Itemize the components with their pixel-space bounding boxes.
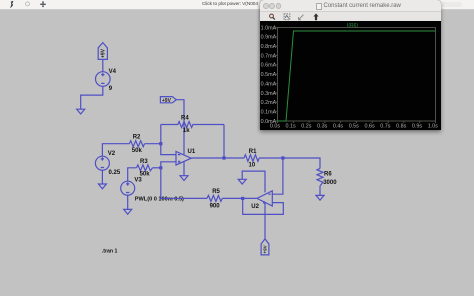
svg-text:+9V: +9V [101, 48, 107, 58]
op-amp U1 [176, 151, 191, 165]
svg-text:0.4s: 0.4s [333, 123, 343, 129]
svg-text:R1: R1 [249, 149, 257, 155]
wire V2 bottom to ground [101, 170, 103, 184]
wire R1 to node D [259, 157, 283, 159]
ground (V3) [124, 209, 132, 214]
svg-text:0.0s: 0.0s [270, 123, 280, 129]
svg-text:900: 900 [210, 203, 221, 209]
wire V2 top to R2 [102, 144, 129, 157]
ground (R6) [316, 195, 324, 200]
svg-text:U1: U1 [188, 149, 196, 155]
junction node B [159, 166, 162, 169]
wire node D to R6 [283, 158, 320, 168]
wire R4 right down to output [223, 125, 225, 159]
svg-text:0.5s: 0.5s [349, 123, 359, 129]
op-amp U2 [257, 191, 272, 206]
resistor R1 [244, 155, 259, 162]
svg-text:V3: V3 [134, 177, 142, 183]
svg-text:1k: 1k [183, 128, 190, 134]
svg-text:R2: R2 [133, 134, 141, 140]
ground (U1) [180, 176, 188, 181]
svg-text:.tran 1: .tran 1 [102, 248, 118, 254]
svg-text:PWL(0 0 100m 0.5): PWL(0 0 100m 0.5) [135, 196, 184, 202]
main LTspice window toolbar [0, 0, 474, 10]
net flag +9V above V4 [98, 43, 107, 60]
voltage source V3 [121, 181, 135, 195]
wire node A to U1 inverting input [161, 144, 176, 155]
svg-text:0.5mA: 0.5mA [261, 72, 277, 78]
svg-text:0.4mA: 0.4mA [261, 81, 277, 87]
wire R4 left to node A [160, 125, 162, 144]
svg-text:0.1s: 0.1s [285, 123, 295, 129]
svg-text:3000: 3000 [323, 180, 337, 186]
ground (V2) [98, 184, 106, 189]
svg-text:0.8s: 0.8s [396, 123, 406, 129]
x ticks [278, 121, 436, 123]
junction node A [159, 142, 162, 145]
svg-text:1.0s: 1.0s [428, 123, 438, 129]
svg-text:+9V: +9V [263, 244, 268, 253]
junction output node [222, 156, 225, 159]
svg-text:50k: 50k [132, 148, 143, 154]
svg-text:+9V: +9V [162, 98, 172, 104]
junction U2 output node [241, 197, 244, 200]
net flag +9V left of R4 [160, 97, 176, 104]
svg-text:0.3mA: 0.3mA [261, 91, 277, 97]
svg-text:V4: V4 [109, 69, 117, 75]
svg-text:0.1mA: 0.1mA [261, 110, 277, 116]
svg-text:U2: U2 [251, 204, 259, 210]
voltage source V2 [95, 156, 109, 170]
svg-text:0.25: 0.25 [109, 170, 121, 176]
svg-text:R5: R5 [212, 189, 220, 195]
svg-text:0.9s: 0.9s [412, 123, 422, 129]
resistor R3 [137, 165, 153, 171]
ground (U2) [238, 179, 246, 184]
wire V3 bottom to ground [127, 195, 129, 209]
resistor R5 [207, 195, 222, 201]
svg-text:0.7s: 0.7s [380, 123, 390, 129]
wire U2 V- to ground [242, 171, 265, 192]
svg-text:1.0mA: 1.0mA [261, 25, 277, 31]
svg-text:R4: R4 [181, 116, 189, 122]
y ticks [274, 28, 277, 122]
trace I(R6) [278, 31, 436, 121]
resistor R4 [161, 122, 224, 128]
wire R5 to U2 output [222, 197, 257, 199]
wire node B to U1 non-inverting input [161, 162, 176, 168]
svg-text:9: 9 [109, 86, 113, 92]
wire U1 V- to ground [183, 162, 185, 176]
svg-text:V2: V2 [108, 151, 116, 157]
svg-text:0.3s: 0.3s [317, 123, 327, 129]
waveform plot window [260, 0, 441, 130]
voltage source V4 [96, 72, 111, 87]
wire U2 V+ to flag [264, 203, 266, 239]
x axis labels [270, 123, 438, 129]
y axis labels [261, 25, 277, 125]
svg-text:0.9mA: 0.9mA [261, 35, 277, 41]
svg-text:0.6mA: 0.6mA [261, 63, 277, 69]
wire R6 to ground [319, 186, 321, 196]
svg-text:R6: R6 [324, 172, 332, 178]
svg-text:0.2mA: 0.2mA [261, 100, 277, 106]
svg-text:50k: 50k [140, 171, 151, 177]
svg-text:I(R6): I(R6) [347, 23, 358, 29]
net flag +9V below U2 [261, 239, 269, 255]
svg-text:0.7mA: 0.7mA [261, 53, 277, 59]
wire V4 to ground [81, 86, 103, 109]
svg-text:10: 10 [249, 162, 256, 168]
ground (V4) [77, 109, 85, 114]
svg-text:0.6s: 0.6s [364, 123, 374, 129]
svg-text:0.2s: 0.2s [301, 123, 311, 129]
wire node B down to R5 [161, 168, 207, 199]
resistor R6 [317, 168, 323, 186]
wire V3 top to R3 [128, 168, 137, 181]
wire R2 to node A [145, 143, 161, 145]
svg-text:0.8mA: 0.8mA [261, 44, 277, 50]
svg-text:R3: R3 [140, 159, 148, 165]
wire U2 feedback wrap [243, 198, 284, 214]
wire U1 output to R1 [191, 157, 244, 159]
plot frame [278, 28, 436, 122]
wire flag to U1 V+ pin [176, 100, 184, 155]
wire node D down to U2 input [272, 158, 283, 194]
resistor R2 [129, 141, 144, 147]
wire R3 to node B [153, 167, 161, 169]
wire flag to V4 top [102, 59, 104, 71]
junction node D [281, 156, 284, 159]
